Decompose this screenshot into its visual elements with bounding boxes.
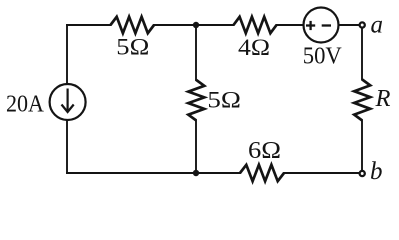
wire top middle horizontal — [154, 24, 234, 26]
resistor R — [354, 80, 370, 121]
svg-text:b: b — [370, 158, 383, 185]
wire bottom left — [67, 172, 240, 174]
svg-text:20A: 20A — [6, 92, 45, 118]
resistor 6ohm — [240, 165, 284, 181]
resistor 5ohm middle — [188, 80, 204, 121]
current source I 20A circle — [50, 84, 86, 120]
wire source to node a — [339, 24, 360, 26]
wire top-left horizontal — [67, 24, 111, 26]
junction dot top — [193, 22, 199, 28]
svg-text:6Ω: 6Ω — [248, 138, 281, 164]
svg-text:R: R — [375, 85, 391, 112]
wire 4ohm to source — [277, 24, 304, 26]
voltage source V 50V circle — [304, 8, 339, 43]
svg-text:a: a — [371, 11, 384, 38]
node a terminal — [360, 22, 365, 27]
wire right lower — [361, 121, 363, 171]
svg-text:4Ω: 4Ω — [238, 35, 270, 60]
resistor 5ohm top-left — [111, 17, 155, 33]
current source arrow — [62, 89, 74, 113]
wire left upper — [66, 25, 68, 84]
voltage source plus sign — [306, 21, 315, 30]
voltage source minus sign — [322, 24, 331, 26]
wire right upper — [361, 29, 363, 80]
svg-text:50V: 50V — [303, 43, 343, 69]
junction dot bottom — [193, 170, 199, 176]
resistor 4ohm — [234, 17, 277, 33]
svg-text:5Ω: 5Ω — [116, 35, 149, 60]
wire middle upper — [195, 25, 197, 80]
svg-text:5Ω: 5Ω — [207, 87, 241, 112]
wire middle lower — [195, 121, 197, 174]
wire left lower — [66, 120, 68, 173]
node b terminal — [360, 171, 365, 176]
wire bottom right — [284, 172, 359, 174]
